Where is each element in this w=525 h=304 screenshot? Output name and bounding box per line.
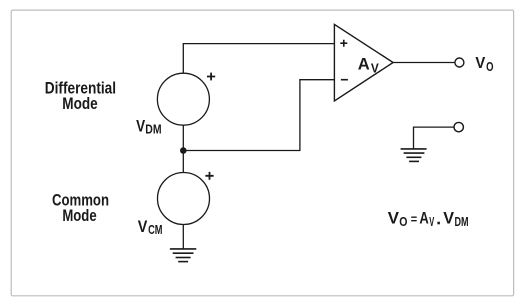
equation VO = AV . VDM xyxy=(388,209,469,229)
source VCM xyxy=(138,172,214,237)
svg-text:O: O xyxy=(399,215,407,229)
svg-text:DM: DM xyxy=(145,122,161,136)
pin + xyxy=(340,40,347,47)
pin - xyxy=(341,79,348,81)
svg-text:Mode: Mode xyxy=(62,94,97,113)
svg-text:Mode: Mode xyxy=(62,206,96,225)
svg-text:V: V xyxy=(443,209,454,228)
svg-text:V: V xyxy=(136,116,146,135)
op-amp AV xyxy=(334,24,393,101)
svg-text:=: = xyxy=(411,212,418,227)
wire: op-amp output xyxy=(393,62,455,64)
node label VO xyxy=(475,55,493,74)
ground (below VCM) xyxy=(170,249,196,262)
terminal VO (open circle) xyxy=(455,58,464,67)
terminal (right, open circle) xyxy=(454,122,463,131)
label Differential Mode xyxy=(45,78,116,113)
plus polarity VDM xyxy=(207,73,215,81)
ground (right) xyxy=(401,149,427,162)
svg-text:A: A xyxy=(419,209,428,228)
svg-text:V: V xyxy=(429,215,434,229)
svg-text:V: V xyxy=(371,61,380,75)
svg-text:V: V xyxy=(388,209,400,228)
wire: right terminal to ground xyxy=(414,127,455,149)
svg-text:A: A xyxy=(358,55,370,74)
node junction dot xyxy=(180,147,187,154)
wire: junction to -input (right, up, right) xyxy=(183,80,334,151)
wire: VDM top to +input horizontal run xyxy=(183,44,334,74)
wire: VDM bottom to VCM top xyxy=(182,125,184,172)
svg-text:DM: DM xyxy=(455,215,469,229)
label Common Mode xyxy=(52,191,109,225)
svg-text:O: O xyxy=(486,60,494,74)
svg-text:CM: CM xyxy=(148,223,162,237)
plus polarity VCM xyxy=(205,172,213,180)
svg-text:V: V xyxy=(475,55,485,72)
svg-text:V: V xyxy=(138,217,148,236)
source VDM xyxy=(136,73,215,137)
wire: VCM bottom to ground xyxy=(182,225,184,249)
